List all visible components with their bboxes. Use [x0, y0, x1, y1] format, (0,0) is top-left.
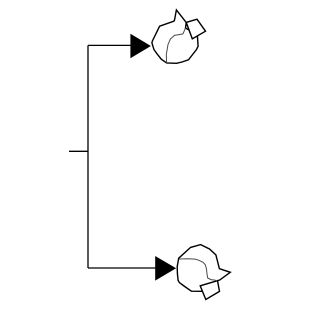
bottom branch wire: [88, 267, 156, 269]
bottom taxon blob: [177, 245, 230, 300]
bottom arrowhead: [155, 256, 176, 281]
top arrowhead: [130, 34, 151, 58]
top taxon blob: [152, 10, 206, 63]
trunk wire: [87, 45, 89, 268]
top branch wire: [88, 44, 131, 46]
bottom blob outline: [177, 245, 230, 292]
root stub wire: [69, 150, 88, 152]
bottom blob diamond: [200, 281, 219, 300]
bottom blob fold line: [179, 259, 217, 281]
